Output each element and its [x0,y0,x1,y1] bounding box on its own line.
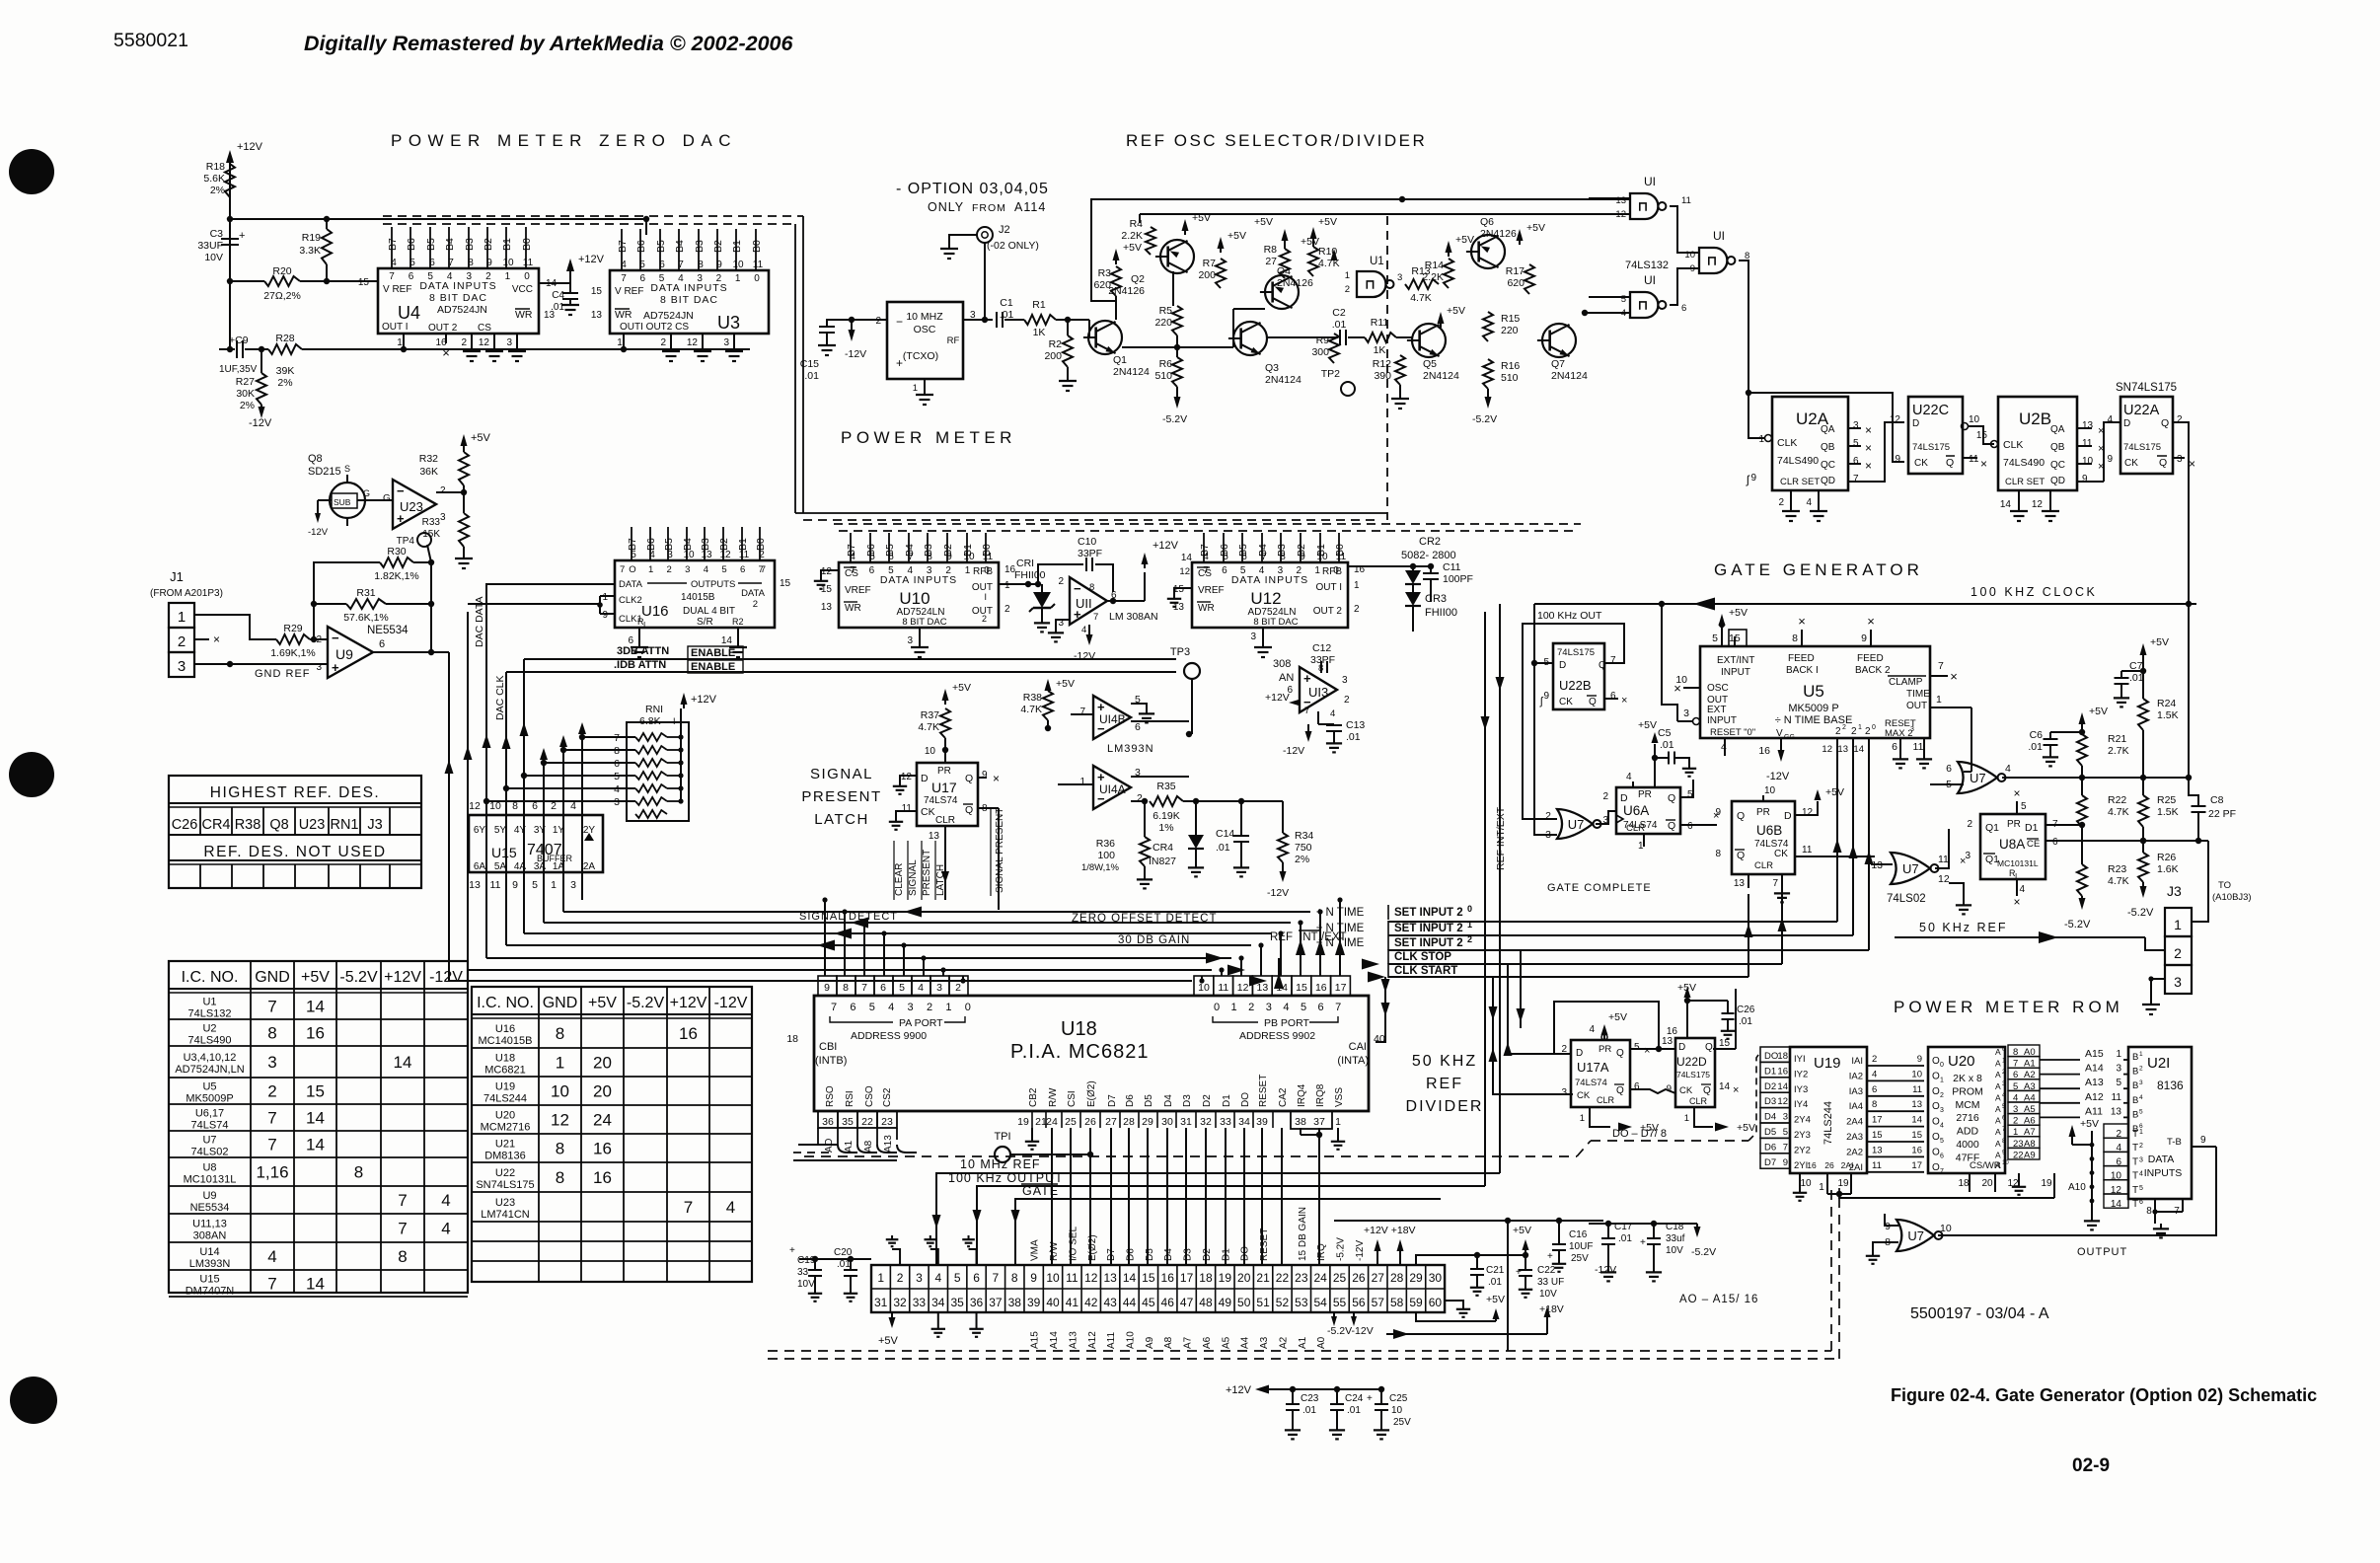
resistor R5 220 [1172,306,1182,335]
svg-text:27: 27 [1105,1116,1117,1128]
svg-text:D2: D2 [1202,1094,1213,1107]
svg-text:22: 22 [861,1116,873,1128]
risers to 50 kHz ref divider [1493,977,1573,1094]
svg-text:26: 26 [1824,1160,1834,1170]
capacitor C1 .01 [996,312,998,328]
svg-text:RSI: RSI [845,1090,855,1107]
svg-text:LM393N: LM393N [189,1258,231,1270]
svg-text:D5: D5 [1764,1127,1776,1138]
svg-text:OUT I: OUT I [382,322,408,333]
svg-text:CLR SET: CLR SET [1780,477,1820,487]
svg-text:I/O SEL: I/O SEL [1068,1227,1078,1261]
svg-text:C22: C22 [1537,1265,1556,1276]
svg-text:14: 14 [306,1109,325,1128]
svg-text:B4: B4 [444,238,456,251]
IC U4 AD7524JN 8-bit DAC [378,268,539,334]
svg-text:02-9: 02-9 [2072,1455,2110,1476]
svg-text:×: × [1980,457,1987,471]
op-amp U9 NE5534 [328,627,373,678]
svg-text:+5V: +5V [1056,678,1075,690]
svg-text:CLR: CLR [935,815,955,826]
svg-text:R/W: R/W [1048,1087,1059,1107]
table HIGHEST REF DES designator cells [168,807,170,835]
svg-text:+5V: +5V [2150,636,2169,648]
svg-text:B5: B5 [425,238,437,251]
svg-text:12: 12 [469,800,481,812]
svg-text:OUTPUTS: OUTPUTS [691,579,735,590]
bus arrows pointing right (to PB port) [1206,953,1224,964]
svg-text:2: 2 [1967,819,1972,830]
svg-text:2.2K: 2.2K [1422,271,1444,283]
svg-text:3: 3 [178,658,186,675]
svg-text:4: 4 [1283,1002,1289,1013]
svg-text:6: 6 [1853,456,1859,467]
svg-text:6A: 6A [474,861,486,872]
U18 top pin boxes PA [818,976,837,996]
svg-text:8: 8 [354,1163,363,1182]
svg-text:Q: Q [1589,697,1597,707]
svg-text:D6: D6 [1125,1094,1136,1107]
svg-text:U20: U20 [495,1110,515,1122]
svg-text:+5V: +5V [1486,1294,1505,1305]
svg-text:IA2: IA2 [1849,1071,1863,1081]
svg-text:5: 5 [1712,633,1718,644]
svg-text:31: 31 [874,1296,888,1309]
resistor R10 4.7K [1308,247,1318,276]
svg-text:U1: U1 [1370,256,1384,267]
svg-text:4: 4 [391,258,397,268]
svg-text:R4: R4 [1130,218,1144,230]
svg-text:5: 5 [1783,1127,1788,1138]
svg-text:INPUT: INPUT [1721,667,1750,678]
svg-text:A: A [1995,1070,2001,1079]
svg-text:4: 4 [2019,884,2025,895]
resistor R36 100 1/8W 1% [1144,801,1146,837]
svg-text:8: 8 [2146,1206,2152,1217]
edge connector strip pins 1-30 / 31-60 [871,1265,1445,1312]
svg-text:38: 38 [1008,1296,1022,1309]
svg-text:×: × [1867,614,1875,629]
svg-text:3: 3 [685,564,690,575]
svg-text:Q: Q [1703,1085,1711,1096]
svg-text:+: + [896,356,903,370]
svg-text:33PF: 33PF [1078,548,1102,559]
wire U6A Q to U5 pin5 row [1680,780,1693,797]
svg-text:9: 9 [1917,1054,1922,1065]
svg-text:R21: R21 [2108,733,2126,745]
svg-text:PB PORT: PB PORT [1264,1017,1309,1029]
gnd for T common [2091,1131,2093,1210]
svg-text:Digitally Remastered by ArtekM: Digitally Remastered by ArtekMedia © 200… [304,32,793,55]
svg-text:37: 37 [1313,1116,1325,1128]
svg-text:C5: C5 [1658,727,1672,739]
svg-text:D7: D7 [1106,1248,1117,1261]
svg-text:10: 10 [551,1082,569,1101]
svg-text:×: × [213,633,220,646]
svg-text:8: 8 [556,1140,564,1158]
wires for ref/output/gate lines [936,1173,1500,1265]
svg-text:MK5009P: MK5009P [186,1093,233,1105]
svg-text:10V: 10V [1539,1289,1557,1300]
svg-text:A8: A8 [1163,1336,1174,1349]
U10 CS ground [821,570,839,576]
svg-text:G: G [363,488,370,498]
diode CR4 1N827 [1193,798,1199,804]
resistor R12 390 [1395,355,1405,385]
svg-text:LATCH: LATCH [935,864,946,896]
svg-text:1%: 1% [1158,822,1173,834]
svg-text:8: 8 [1715,849,1721,859]
svg-text:2.2K: 2.2K [1121,230,1143,242]
svg-text:R30: R30 [387,546,406,558]
svg-text:2: 2 [1344,695,1350,706]
svg-text:DATA: DATA [2148,1154,2174,1165]
svg-text:IYI: IYI [1794,1054,1806,1065]
svg-text:30: 30 [1161,1116,1173,1128]
svg-text:14: 14 [721,635,733,646]
svg-text:8: 8 [1792,633,1798,644]
svg-text:POWER METER: POWER METER [841,428,1016,447]
svg-text:9: 9 [512,879,518,891]
gate U1 middle (osc section) [1357,271,1386,297]
svg-text:+5V: +5V [1608,1011,1627,1023]
svg-text:2: 2 [875,316,881,327]
svg-text:A9: A9 [1145,1336,1155,1349]
svg-text:6: 6 [869,565,875,576]
svg-text:2: 2 [897,1271,904,1285]
svg-text:11: 11 [1872,1160,1882,1171]
svg-text:3: 3 [1940,1107,1944,1114]
wire DAC CLK from U16 clocks [468,603,600,605]
+5V below connector cell 32 [891,1312,893,1322]
capacitor C8 22PF [2192,805,2206,807]
svg-text:74LS490: 74LS490 [1777,455,1819,467]
dashed bus curl into data boxes [1748,1052,1760,1141]
svg-text:2: 2 [753,599,758,610]
svg-text:A12: A12 [2085,1091,2104,1103]
svg-text:3: 3 [440,512,446,523]
svg-text:×: × [1865,423,1872,437]
resistor R11 1K [1365,333,1396,342]
svg-text:2: 2 [1004,604,1010,615]
svg-text:CRI: CRI [1016,558,1034,569]
svg-text:OUTI OUT2 CS: OUTI OUT2 CS [620,322,689,333]
svg-text:19: 19 [1017,1116,1029,1128]
bus fan B7-B0 into U16 [631,527,632,560]
capacitor C3 33UF 10V [229,219,231,281]
svg-text:2A2: 2A2 [1846,1147,1863,1157]
svg-text:10: 10 [2002,1160,2009,1166]
svg-text:2: 2 [667,564,672,575]
svg-text:×: × [1713,810,1719,822]
svg-text:1: 1 [2139,1129,2143,1136]
resistor R37 4.7K pull-up [940,708,950,738]
IC U17 74LS74 signal present latch [917,763,978,826]
svg-text:U4: U4 [398,303,420,323]
svg-text:3: 3 [723,337,729,348]
svg-text:U2: U2 [202,1023,216,1035]
svg-text:9: 9 [982,770,988,781]
svg-text:U10: U10 [899,589,930,608]
svg-text:D4: D4 [1764,1112,1776,1123]
svg-text:U19: U19 [495,1081,515,1093]
svg-text:D: D [1912,418,1919,429]
svg-text:C26: C26 [1737,1005,1755,1015]
svg-text:4: 4 [649,550,655,560]
svg-text:19: 19 [1219,1271,1232,1285]
svg-text:QD: QD [2050,476,2065,486]
resistor R13 4.7K [1405,279,1439,289]
svg-text:A9: A9 [2024,1150,2036,1160]
svg-text:1: 1 [1684,1113,1689,1124]
svg-text:B6: B6 [406,238,417,251]
svg-text:308AN: 308AN [193,1230,227,1242]
svg-text:AO – A15/ 16: AO – A15/ 16 [1679,1294,1758,1305]
svg-text:2N4124: 2N4124 [1265,374,1302,386]
wire +12V rail down to C9 node [229,281,231,349]
svg-text:4.7K: 4.7K [1410,292,1432,304]
wire J1 pin2 no-connect [194,638,209,640]
svg-text:1K: 1K [1033,327,1046,338]
resistor R17 620 [1525,264,1534,294]
wire J2 down to RF line [984,243,986,320]
resistor R4 2.2K [1146,227,1155,255]
capacitor C2 .01 [1339,330,1341,345]
svg-text:S/R: S/R [697,617,713,628]
svg-text:9: 9 [1895,454,1900,465]
svg-text:19: 19 [1837,1178,1849,1189]
U12 VREF ground [1174,588,1192,594]
capacitor C7 .01 [2115,677,2129,679]
svg-text:7: 7 [1079,707,1085,717]
svg-text:20: 20 [593,1082,612,1101]
svg-text:D7: D7 [1764,1157,1776,1168]
svg-text:11: 11 [490,879,501,891]
svg-text:56: 56 [1352,1296,1366,1309]
resistor R24 1.5K [2140,643,2147,655]
svg-text:1: 1 [1231,1002,1237,1013]
svg-text:CLK STOP: CLK STOP [1394,951,1451,963]
svg-text:UI: UI [1713,229,1725,243]
svg-text:9: 9 [2107,454,2113,465]
svg-text:5: 5 [639,260,645,270]
wires U15 outputs up to RN1 rows [543,763,545,923]
U16 ground pins 6 and 14 [638,628,640,641]
svg-text:O: O [629,564,635,575]
svg-text:A10: A10 [2068,1182,2086,1193]
svg-text:390: 390 [1374,370,1391,382]
feedback resistor R30 1.82K 1% [314,562,380,604]
resistor R14 2.2K [1444,259,1453,288]
svg-text:D4: D4 [1163,1094,1174,1107]
100 kHz output vertical line [1484,612,1486,1186]
svg-text:2: 2 [316,634,322,645]
svg-text:1: 1 [1345,270,1350,281]
svg-text:WR: WR [515,309,533,321]
svg-text:32: 32 [1200,1116,1212,1128]
svg-text:74LS02: 74LS02 [1887,893,1926,905]
svg-text:-12V: -12V [249,417,272,429]
svg-text:2: 2 [2139,1066,2143,1073]
svg-text:10: 10 [1391,1405,1403,1416]
svg-text:R25: R25 [2157,794,2176,806]
wire U22A Q vertical to clock line and divider [2188,523,2190,778]
svg-text:9: 9 [946,552,952,562]
svg-text:U19: U19 [1814,1055,1841,1072]
svg-text:R38: R38 [1023,692,1042,704]
svg-text:57.6K,1%: 57.6K,1% [343,612,389,624]
svg-text:6: 6 [659,260,665,270]
svg-text:-12V: -12V [1074,650,1095,662]
svg-text:J3: J3 [2167,883,2182,899]
svg-text:U3,4,10,12: U3,4,10,12 [184,1052,237,1064]
CLK STOP / CLK START lines [1388,963,1782,965]
svg-text:LM741CN: LM741CN [481,1209,530,1221]
svg-text:16: 16 [1667,1026,1678,1037]
svg-text:18: 18 [1777,1051,1788,1062]
svg-text:7: 7 [267,1109,276,1128]
resistor R2 200 [1067,320,1069,335]
svg-text:I.C. NO.: I.C. NO. [182,969,239,986]
svg-text:7: 7 [908,552,914,562]
svg-text:DUAL 4 BIT: DUAL 4 BIT [683,606,735,617]
resistor R8 27 [1280,249,1290,278]
svg-text:⊓: ⊓ [1638,199,1648,214]
svg-text:CR2: CR2 [1419,536,1441,548]
svg-text:CLR: CLR [1597,1095,1615,1105]
svg-text:6: 6 [1687,821,1693,832]
svg-text:PR: PR [1599,1044,1611,1055]
svg-text:6Y: 6Y [474,825,486,836]
svg-text:25V: 25V [1393,1417,1411,1428]
svg-text:11: 11 [1681,195,1691,206]
svg-text:74LS490: 74LS490 [2003,457,2045,469]
svg-text:13: 13 [1837,744,1848,755]
svg-text:2N4126: 2N4126 [1480,228,1517,240]
svg-text:2: 2 [955,982,961,994]
svg-text:U20: U20 [1948,1053,1975,1070]
U2B ground pins 14 and 12 [2018,490,2020,505]
50 KHz REF wire to J3 pin2 [1895,936,2145,938]
svg-text:CAI: CAI [1349,1041,1367,1053]
svg-text:I.C. NO.: I.C. NO. [477,995,534,1011]
svg-text:11: 11 [523,258,534,268]
table I.C. NO. (right) frame and header [472,987,752,1282]
svg-text:11: 11 [1938,854,1949,865]
svg-text:30: 30 [1429,1271,1443,1285]
svg-text:U17: U17 [931,780,957,795]
resistor R6 510 [1172,357,1182,387]
+5V pull for U21 T pins [2069,1125,2076,1137]
svg-text:4: 4 [2139,1094,2143,1101]
svg-text:V REF: V REF [383,284,411,295]
svg-text:.01: .01 [1216,842,1230,854]
IC U17A 74LS74 [1571,1040,1630,1107]
svg-text:5: 5 [409,258,415,268]
wire Q1 collector rail upper [1091,199,1630,301]
svg-text:R2: R2 [1049,338,1063,350]
svg-text:POWER METER ZERO DAC: POWER METER ZERO DAC [391,131,737,150]
svg-text:33PF: 33PF [1310,654,1335,666]
svg-text:12: 12 [1179,566,1190,577]
svg-text:9: 9 [1030,1271,1037,1285]
svg-text:15: 15 [591,286,603,297]
svg-text:A11: A11 [1106,1332,1117,1349]
svg-text:U3: U3 [717,313,740,333]
svg-text:D1: D1 [1222,1094,1232,1107]
svg-text:A: A [1995,1059,2001,1069]
svg-text:ZERO OFFSET DETECT: ZERO OFFSET DETECT [1072,913,1218,925]
CA1 feed line with arrow [1376,977,1385,1042]
svg-text:7: 7 [621,273,627,284]
svg-text:SN74LS175: SN74LS175 [476,1179,534,1191]
transistor Q3 2N4124 [1233,322,1267,355]
svg-text:CR4: CR4 [201,817,230,833]
svg-text:5: 5 [1301,1002,1306,1013]
capacitor C15 .01 [819,326,835,328]
svg-text:C21: C21 [1486,1265,1505,1276]
svg-text:B1: B1 [731,240,743,253]
svg-text:D3: D3 [1183,1248,1194,1261]
svg-text:×: × [1865,441,1872,455]
svg-text:U23: U23 [495,1197,515,1209]
svg-text:ENABLE: ENABLE [691,647,735,659]
svg-text:6: 6 [2139,1199,2143,1206]
svg-text:CLR SET: CLR SET [2005,477,2045,487]
svg-text:.01: .01 [1488,1277,1502,1288]
svg-text:2: 2 [2139,1143,2143,1150]
svg-text:QC: QC [2050,460,2065,471]
svg-text:4: 4 [918,982,924,994]
svg-text:IRQ8: IRQ8 [1315,1083,1326,1107]
wire U9/DAC-DATA bundle vertical lines [448,652,450,981]
svg-text:TO: TO [2218,880,2231,891]
svg-text:10: 10 [732,260,744,270]
IC U22D 74LS175 [1675,1038,1715,1107]
svg-text:50 KHZ: 50 KHZ [1412,1053,1477,1070]
svg-text:8 BIT DAC: 8 BIT DAC [1253,617,1298,628]
svg-text:+12V: +12V [384,969,421,986]
U16 CLK input stubs [600,595,615,597]
svg-text:O: O [1932,1101,1940,1112]
svg-text:11: 11 [753,260,764,270]
svg-text:WR: WR [845,603,861,614]
svg-text:OUTPUT: OUTPUT [2077,1246,2127,1258]
svg-text:C15: C15 [800,358,819,370]
svg-text:+5V: +5V [588,995,617,1011]
svg-text:18: 18 [786,1033,798,1045]
svg-text:Q: Q [1737,850,1745,861]
svg-text:CSO: CSO [864,1085,875,1107]
svg-text:25V: 25V [1571,1253,1589,1264]
svg-text:0: 0 [1940,1062,1944,1069]
svg-text:DIVIDER: DIVIDER [1406,1098,1484,1115]
dashed address bus bottom right [1587,1327,1677,1329]
svg-text:QA: QA [1821,424,1835,435]
svg-text:Q5: Q5 [1423,358,1437,370]
arrow into POWER METER ROM [1713,1021,1891,1023]
svg-text:1UF,35V: 1UF,35V [219,364,258,375]
svg-text:1/8W,1%: 1/8W,1% [1081,862,1120,873]
svg-text:15: 15 [1976,430,1988,441]
svg-text:16: 16 [1161,1271,1175,1285]
svg-text:R2: R2 [732,617,744,627]
svg-text:2: 2 [1835,726,1841,737]
resistor R21 2.7K [2079,712,2086,724]
svg-text:R28: R28 [275,333,294,344]
svg-text:B7: B7 [617,240,629,253]
svg-text:10: 10 [683,550,695,560]
